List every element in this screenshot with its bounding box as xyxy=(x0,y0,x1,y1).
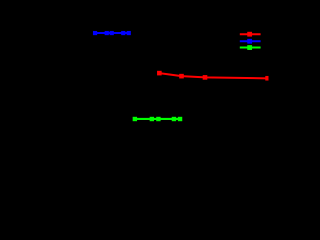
green marker 1 xyxy=(133,117,137,121)
blue marker 2 xyxy=(105,31,109,35)
blue marker 3 xyxy=(110,31,114,35)
red marker 3 xyxy=(203,75,208,80)
legend red entry line xyxy=(240,33,261,35)
legend green entry marker xyxy=(247,45,252,50)
green marker 5 xyxy=(178,117,182,121)
blue marker 1 xyxy=(93,31,97,35)
blue series line xyxy=(95,32,129,34)
green marker 2 xyxy=(150,117,154,121)
red marker 4 (clipped at plot edge) xyxy=(265,76,268,81)
blue marker 4 xyxy=(121,31,125,35)
red marker 1 xyxy=(157,71,162,76)
blue marker 5 xyxy=(127,31,131,35)
legend red entry marker xyxy=(247,32,252,37)
red series line xyxy=(159,73,267,78)
legend green entry line xyxy=(240,47,261,49)
legend blue entry line xyxy=(240,40,261,42)
plot background xyxy=(0,0,280,197)
green series line xyxy=(135,118,180,120)
legend blue entry marker xyxy=(247,39,252,44)
green marker 3 xyxy=(156,117,160,121)
red marker 2 xyxy=(179,74,184,79)
green marker 4 xyxy=(172,117,176,121)
